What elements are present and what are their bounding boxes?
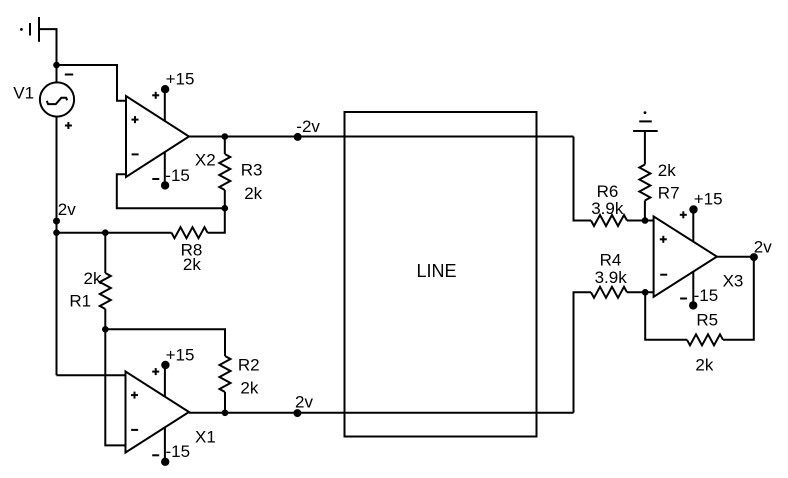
node X3 minus input junction (642, 289, 649, 296)
svg-text:+15: +15 (166, 70, 195, 89)
wire R6 to X3 plus input (627, 220, 654, 222)
wire R3 top stub (224, 137, 226, 155)
node A (V1 top junction) (53, 62, 60, 69)
wire X3 output (717, 256, 754, 258)
svg-text:-15: -15 (165, 166, 190, 185)
resistor R4 (591, 287, 627, 298)
node R1 bottom junction (102, 326, 109, 333)
svg-text:V1: V1 (13, 84, 34, 103)
X2 plus input marker (132, 116, 139, 123)
resistor R3 (219, 154, 230, 190)
svg-text:X1: X1 (195, 427, 216, 446)
wire down to R6 (574, 137, 592, 221)
wire R5 left to minus input (645, 292, 687, 340)
node R1 top (102, 229, 109, 236)
node R2 bottom junction (222, 410, 229, 417)
X1 minus input marker (131, 429, 138, 431)
LINE box (345, 112, 537, 437)
wire X2 feedback (117, 174, 225, 208)
svg-text:LINE: LINE (417, 261, 457, 281)
X3 - pin marker (680, 298, 687, 300)
X2 -15 power pin (161, 152, 169, 189)
svg-text:2v: 2v (295, 393, 313, 412)
X1 +15 power pin (161, 361, 169, 397)
svg-text:3.9k: 3.9k (595, 268, 628, 287)
resistor R6 (591, 215, 627, 226)
svg-text:2k: 2k (658, 161, 676, 180)
wire R4 to X3 minus input (627, 291, 654, 293)
resistor R8 (172, 227, 208, 238)
svg-text:-15: -15 (166, 442, 191, 461)
svg-text:R4: R4 (600, 251, 622, 270)
wire V1 bottom long vertical (56, 118, 58, 376)
svg-text:2k: 2k (240, 379, 258, 398)
wire X1 minus input (105, 329, 125, 445)
svg-text:2k: 2k (695, 356, 713, 375)
svg-text:2v: 2v (58, 200, 76, 219)
node 2v marker dot (53, 218, 60, 225)
wire R2 bottom stub (224, 392, 226, 413)
wire R3 bottom stub (224, 190, 226, 208)
wire bottom riser to R4 (574, 292, 592, 413)
svg-text:2v: 2v (754, 237, 772, 256)
wire R1 top stub (104, 233, 106, 273)
wire X2 output (189, 136, 574, 138)
svg-text:R3: R3 (241, 161, 263, 180)
X3 +15 power pin (689, 205, 697, 241)
X3 -15 power pin (689, 272, 697, 310)
X2 + pin marker (152, 92, 159, 99)
V1 minus marker (65, 74, 73, 76)
wire X3 feedback down (723, 257, 754, 340)
X3 minus input marker (660, 274, 667, 276)
svg-text:2k: 2k (183, 255, 201, 274)
source V1 (40, 82, 74, 116)
wire ground to R7 (644, 131, 646, 165)
svg-text:-15: -15 (694, 286, 719, 305)
wire feedback row to R2 (105, 329, 225, 356)
V1 plus marker (65, 122, 72, 129)
svg-text:2k: 2k (84, 269, 102, 288)
op-amp X1 (126, 372, 190, 453)
op-amp X3 (654, 216, 717, 296)
X1 plus input marker (131, 392, 138, 399)
X2 +15 power pin (161, 85, 169, 121)
node X3 plus input junction (642, 217, 649, 224)
node 2v marker (bottom) (293, 409, 301, 417)
X2 - pin marker (152, 178, 159, 180)
ground (right, earth) (633, 111, 658, 131)
X3 + pin marker (680, 211, 687, 218)
svg-text:2k: 2k (244, 184, 262, 203)
wire X1 plus input (57, 374, 126, 376)
resistor R7 (639, 165, 650, 201)
svg-text:R2: R2 (238, 356, 260, 375)
svg-text:+15: +15 (166, 345, 195, 364)
svg-text:R5: R5 (696, 311, 718, 330)
op-amp X2 (126, 96, 189, 177)
svg-text:R7: R7 (658, 183, 680, 202)
wire R8 right to feedback node (208, 208, 225, 233)
wire row to R8 (57, 232, 172, 234)
svg-text:R1: R1 (69, 292, 91, 311)
resistor R1 (100, 273, 111, 309)
resistor R2 (220, 356, 231, 392)
wire R1 bottom stub (104, 309, 106, 329)
svg-text:-2v: -2v (296, 117, 320, 136)
node -2v marker (294, 133, 302, 141)
wire X1 output (189, 412, 574, 414)
resistor R5 (687, 334, 723, 345)
X1 - pin marker (152, 454, 159, 456)
wire node to X2 + input (57, 65, 127, 101)
wire ground to node (39, 29, 57, 82)
X1 + pin marker (152, 368, 159, 375)
X1 -15 power pin (161, 427, 169, 466)
node X3 output (750, 253, 758, 261)
node R3 top junction (222, 133, 229, 140)
X2 minus input marker (132, 153, 139, 155)
svg-text:X2: X2 (195, 151, 216, 170)
node row junction (53, 229, 60, 236)
svg-text:X3: X3 (723, 271, 744, 290)
svg-text:+15: +15 (694, 190, 723, 209)
ground (left, rotated earth) (20, 17, 39, 42)
svg-text:3.9k: 3.9k (591, 199, 624, 218)
node R3 bottom junction (222, 205, 229, 212)
X3 plus input marker (660, 236, 667, 243)
wire R7 to junction (644, 201, 646, 221)
